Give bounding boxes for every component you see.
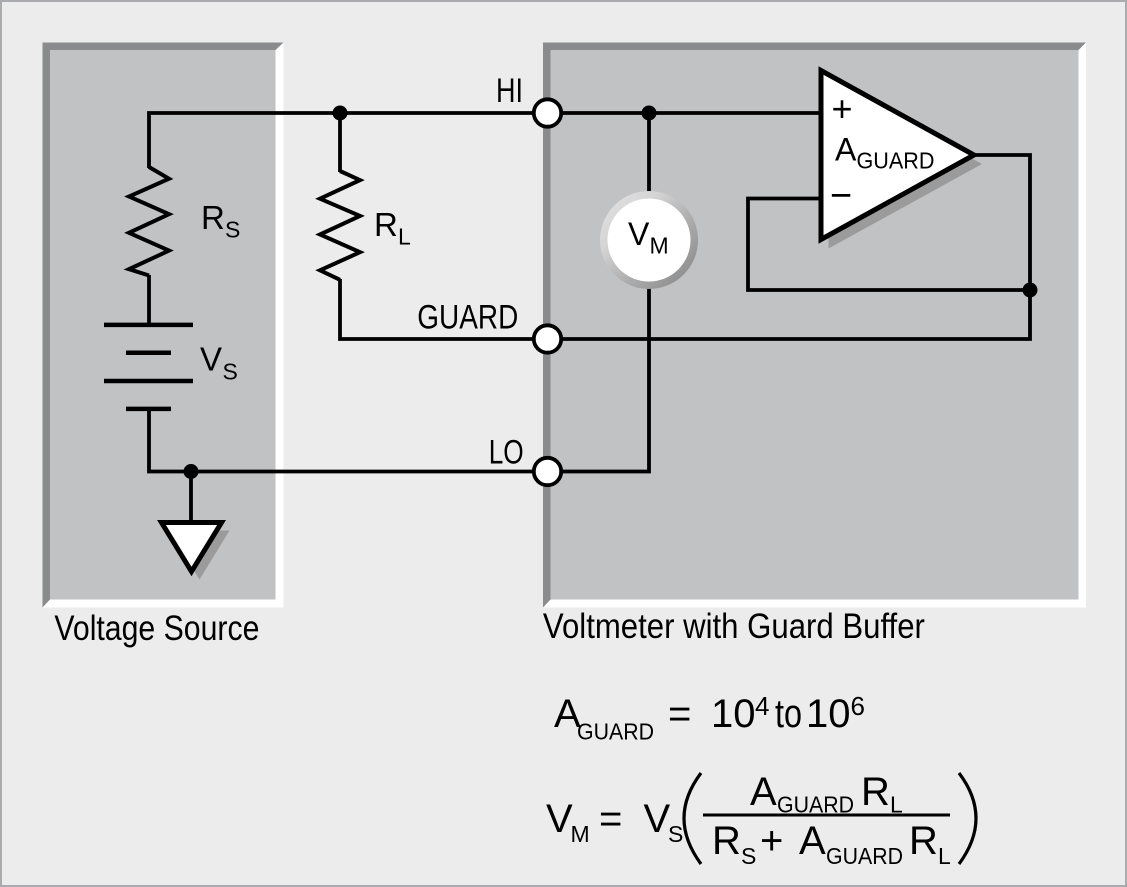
svg-text:HI: HI xyxy=(496,72,523,110)
svg-text:GUARD: GUARD xyxy=(417,299,518,337)
label V_M xyxy=(628,216,669,259)
voltmeter shield box xyxy=(543,43,1086,608)
junction node: voltmeter tap on HI rail xyxy=(642,106,657,121)
svg-text:to: to xyxy=(775,692,802,736)
wire: R_L bottom lead to GUARD terminal xyxy=(340,279,548,339)
svg-text:R: R xyxy=(909,819,938,863)
label R_S xyxy=(201,199,240,243)
label V_S xyxy=(200,341,238,385)
svg-text:+: + xyxy=(831,88,852,129)
svg-text:V: V xyxy=(200,341,222,378)
wire: HI rail R_L node to HI terminal xyxy=(340,111,548,115)
svg-text:M: M xyxy=(650,233,669,259)
voltmeter VM face xyxy=(608,199,691,282)
terminal HI xyxy=(534,99,561,126)
svg-text:S: S xyxy=(741,843,756,869)
junction node: guard output xyxy=(1023,283,1038,298)
svg-text:Voltage Source: Voltage Source xyxy=(54,609,259,648)
label A_GUARD (op-amp gain) xyxy=(835,132,935,174)
wire: op-amp inverting input feedback xyxy=(748,199,1028,291)
svg-text:LO: LO xyxy=(489,434,524,472)
formula: V_M = V_S ( A_GUARD R_L / (R_S + A_GUARD R_L) ) xyxy=(546,770,976,869)
svg-text:A: A xyxy=(835,132,857,168)
wire: ground stub xyxy=(189,472,193,523)
svg-text:L: L xyxy=(398,224,411,250)
wire: R_S to battery xyxy=(147,275,151,323)
wire: HI node down to voltmeter top xyxy=(647,113,651,195)
ground symbol xyxy=(162,523,222,572)
svg-text:S: S xyxy=(223,359,238,385)
ground symbol shadow xyxy=(170,531,230,580)
svg-text:R: R xyxy=(201,199,225,236)
svg-text:V: V xyxy=(644,797,671,841)
formula: A_GUARD = 10^4 to 10^6 xyxy=(554,691,865,745)
svg-text:10: 10 xyxy=(711,692,756,736)
svg-text:V: V xyxy=(628,216,650,252)
svg-text:=: = xyxy=(599,797,622,841)
op-amp U1 triangle xyxy=(821,71,974,240)
junction node: R_L tap on HI rail xyxy=(333,106,348,121)
wire: battery negative to LO terminal xyxy=(149,409,548,472)
svg-text:R: R xyxy=(861,770,890,814)
terminal LO xyxy=(534,458,561,485)
wire: R_L top lead xyxy=(338,113,342,172)
wire: HI terminal to op-amp non-inverting input xyxy=(548,111,821,115)
terminal GUARD xyxy=(534,325,561,352)
svg-text:L: L xyxy=(938,843,951,869)
svg-text:S: S xyxy=(668,821,683,847)
svg-text:S: S xyxy=(225,217,240,243)
wire: GUARD terminal to guard node xyxy=(548,291,1031,339)
battery V_S plate short bottom xyxy=(126,407,171,412)
svg-text:GUARD: GUARD xyxy=(577,719,654,745)
svg-text:V: V xyxy=(546,797,573,841)
svg-text:Voltmeter with Guard Buffer: Voltmeter with Guard Buffer xyxy=(543,607,925,646)
svg-text:M: M xyxy=(571,821,590,847)
svg-text:GUARD: GUARD xyxy=(826,843,903,869)
svg-text:R: R xyxy=(712,819,741,863)
svg-text:R: R xyxy=(374,206,398,243)
junction node: ground tap on LO wire xyxy=(184,464,199,479)
battery V_S plate long lower xyxy=(104,379,193,384)
label R_L xyxy=(374,206,411,250)
wire: voltmeter bottom to LO terminal xyxy=(548,286,650,472)
svg-text:6: 6 xyxy=(851,691,865,721)
wire: HI rail from source lead to R_L node xyxy=(149,113,340,168)
svg-text:A: A xyxy=(750,770,777,814)
svg-text:=: = xyxy=(668,692,691,736)
resistor R_L xyxy=(320,171,360,280)
svg-text:−: − xyxy=(830,175,852,217)
svg-text:A: A xyxy=(799,819,826,863)
voltmeter VM ring xyxy=(600,191,698,289)
svg-text:4: 4 xyxy=(755,691,769,721)
resistor R_S xyxy=(129,167,169,276)
voltage source shield box xyxy=(43,43,284,608)
battery V_S plate short upper xyxy=(126,351,171,356)
battery V_S plate long top xyxy=(104,323,193,328)
op-amp U1 shadow xyxy=(829,80,983,249)
svg-text:+: + xyxy=(760,819,783,863)
svg-text:GUARD: GUARD xyxy=(857,148,935,174)
wire: op-amp output xyxy=(972,155,1030,290)
svg-text:10: 10 xyxy=(806,692,851,736)
